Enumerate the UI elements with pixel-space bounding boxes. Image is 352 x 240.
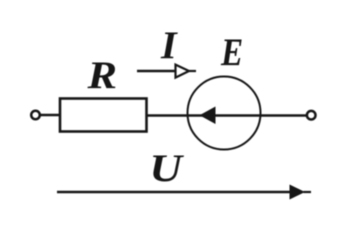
svg-text:I: I <box>160 24 178 67</box>
voltage arrow U: stub <box>304 191 312 193</box>
label E <box>220 29 243 73</box>
terminal left <box>31 111 40 120</box>
label U <box>149 147 184 191</box>
current arrow I: line <box>137 70 175 73</box>
svg-text:R: R <box>86 54 117 97</box>
wire <box>41 114 61 117</box>
voltage arrow U: head <box>290 185 306 200</box>
terminal right <box>307 111 316 120</box>
svg-text:U: U <box>149 147 184 191</box>
current arrow I: stub <box>189 70 196 72</box>
label R <box>86 54 117 97</box>
arrowhead of E (points left) <box>200 107 216 125</box>
label I <box>160 24 178 67</box>
voltage arrow U: line <box>57 191 291 194</box>
svg-text:E: E <box>220 29 243 73</box>
source E <box>188 77 261 150</box>
resistor R <box>60 99 147 132</box>
current arrow I: open head <box>176 65 190 78</box>
wire <box>147 114 307 117</box>
